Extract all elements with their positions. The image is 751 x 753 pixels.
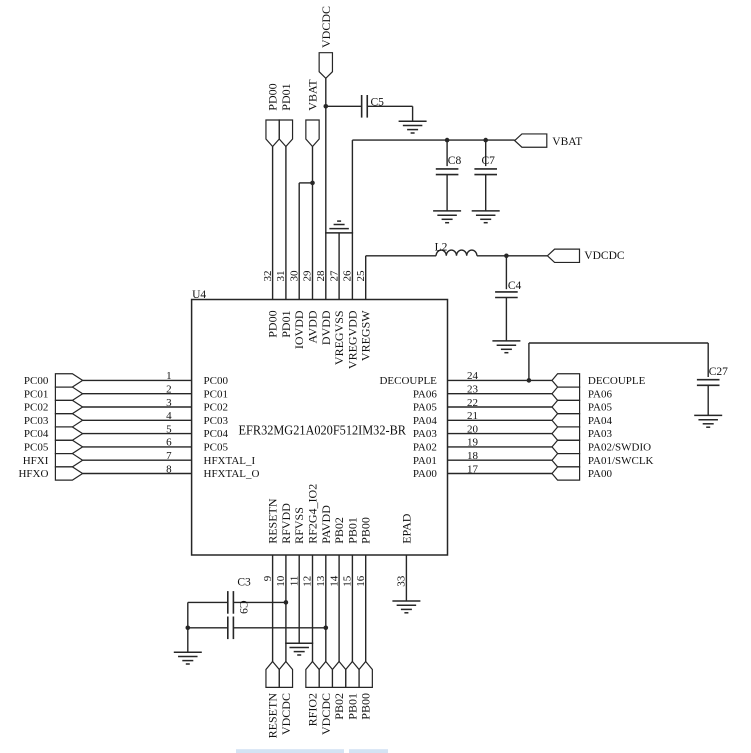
svg-text:16: 16 bbox=[355, 575, 367, 587]
svg-text:HFXTAL_I: HFXTAL_I bbox=[204, 455, 256, 467]
ground (VREGVSS, inverted) bbox=[325, 221, 353, 233]
svg-text:3: 3 bbox=[166, 397, 172, 409]
svg-text:VDCDC: VDCDC bbox=[584, 250, 625, 262]
wire pin 16 bottom bbox=[365, 555, 367, 662]
svg-text:DECOUPLE: DECOUPLE bbox=[588, 375, 646, 387]
svg-text:PA02: PA02 bbox=[413, 442, 437, 454]
svg-text:PC00: PC00 bbox=[204, 375, 229, 387]
svg-text:RFVSS: RFVSS bbox=[292, 507, 306, 544]
wire pin 3 left bbox=[83, 406, 192, 408]
ground (C7) bbox=[472, 211, 500, 223]
wire pin 7 left bbox=[83, 459, 192, 461]
wire pin 15 bottom bbox=[351, 555, 353, 662]
svg-text:PC03: PC03 bbox=[204, 415, 229, 427]
svg-text:EFR32MG21A020F512IM32-BR: EFR32MG21A020F512IM32-BR bbox=[239, 423, 407, 438]
junction VBAT/IOVDD/AVDD bbox=[310, 181, 315, 186]
svg-text:PA01: PA01 bbox=[413, 455, 437, 467]
wire pin 19 right bbox=[448, 446, 553, 448]
svg-text:DVDD: DVDD bbox=[319, 310, 333, 345]
svg-text:PB00: PB00 bbox=[359, 517, 373, 544]
ground (C27) bbox=[694, 415, 722, 427]
svg-text:VREGSW: VREGSW bbox=[359, 310, 373, 361]
svg-text:24: 24 bbox=[467, 370, 479, 382]
wire C27 bottom bbox=[707, 385, 709, 415]
wire pin 9 bottom bbox=[272, 555, 274, 662]
svg-text:2: 2 bbox=[166, 384, 172, 396]
wire pin 4 left bbox=[83, 419, 192, 421]
wire DECOUPLE right bbox=[529, 342, 708, 344]
port flag PA06 bbox=[552, 387, 580, 400]
svg-text:HFXI: HFXI bbox=[23, 455, 49, 467]
capacitor C27 bbox=[697, 380, 720, 386]
svg-text:C8: C8 bbox=[448, 155, 462, 167]
wire C5 to ground bbox=[367, 105, 412, 107]
port flag PA04 bbox=[552, 414, 580, 427]
wire pin 29 AVDD bbox=[312, 183, 314, 300]
svg-text:12: 12 bbox=[302, 576, 314, 587]
wire pin 8 left bbox=[83, 473, 192, 475]
svg-text:HFXTAL_O: HFXTAL_O bbox=[204, 468, 260, 480]
svg-text:20: 20 bbox=[467, 423, 479, 435]
wire PD00 to pin 32 bbox=[272, 147, 274, 300]
wire C8 top bbox=[446, 140, 448, 166]
port flag PB02 (bottom) bbox=[332, 662, 345, 688]
svg-text:PB00: PB00 bbox=[359, 693, 373, 720]
capacitor C8 bbox=[436, 169, 459, 175]
wire PD01 to pin 31 bbox=[285, 147, 287, 300]
junction C7 bbox=[483, 138, 488, 143]
svg-text:VBAT: VBAT bbox=[306, 79, 320, 111]
wire pin 24 right bbox=[448, 379, 553, 381]
wire C9 left bbox=[188, 627, 228, 629]
svg-text:IOVDD: IOVDD bbox=[292, 310, 306, 349]
svg-text:PC02: PC02 bbox=[204, 402, 228, 414]
svg-text:C3: C3 bbox=[237, 576, 251, 588]
wire gnd stem left bbox=[187, 602, 189, 652]
svg-text:RESETN: RESETN bbox=[266, 693, 280, 739]
highlight bar 1 bbox=[236, 749, 344, 753]
capacitor C9 bbox=[228, 617, 234, 640]
svg-text:PC05: PC05 bbox=[24, 442, 49, 454]
wire pin 5 left bbox=[83, 433, 192, 435]
svg-text:PC04: PC04 bbox=[204, 428, 229, 440]
svg-text:C7: C7 bbox=[482, 155, 496, 167]
svg-text:PB02: PB02 bbox=[332, 517, 346, 544]
svg-text:7: 7 bbox=[166, 450, 172, 462]
wire C7 top bbox=[485, 140, 487, 166]
svg-text:PD01: PD01 bbox=[279, 310, 293, 337]
svg-text:PAVDD: PAVDD bbox=[319, 505, 333, 544]
ground (RFVSS) bbox=[285, 643, 313, 655]
svg-text:PD01: PD01 bbox=[279, 83, 293, 110]
port flag PD00 (top) bbox=[266, 120, 279, 147]
capacitor C5 bbox=[362, 95, 368, 118]
capacitor C7 bbox=[474, 169, 497, 175]
svg-text:19: 19 bbox=[467, 437, 479, 449]
svg-text:DECOUPLE: DECOUPLE bbox=[379, 375, 437, 387]
svg-text:PD00: PD00 bbox=[266, 310, 280, 337]
port flag PB01 (bottom) bbox=[346, 662, 359, 688]
port flag PB00 (bottom) bbox=[359, 662, 372, 688]
wire C3 right to pin 10 bbox=[233, 601, 286, 603]
svg-text:PD00: PD00 bbox=[266, 83, 280, 110]
svg-text:18: 18 bbox=[467, 450, 479, 462]
highlight bar 2 bbox=[349, 749, 388, 753]
svg-text:PC03: PC03 bbox=[24, 415, 49, 427]
capacitor C3 bbox=[228, 591, 234, 614]
svg-text:PA02/SWDIO: PA02/SWDIO bbox=[588, 442, 651, 454]
svg-text:PA05: PA05 bbox=[413, 402, 438, 414]
svg-text:PC02: PC02 bbox=[24, 402, 48, 414]
svg-text:PC00: PC00 bbox=[24, 375, 49, 387]
svg-text:VREGVDD: VREGVDD bbox=[345, 310, 359, 369]
port flag VDCDC (right) bbox=[547, 249, 579, 262]
svg-text:RF2G4_IO2: RF2G4_IO2 bbox=[306, 484, 320, 544]
svg-text:22: 22 bbox=[467, 397, 478, 409]
svg-text:PA06: PA06 bbox=[588, 388, 613, 400]
svg-text:14: 14 bbox=[328, 575, 340, 587]
ground (C3/C9) bbox=[174, 652, 202, 664]
svg-text:U4: U4 bbox=[192, 289, 206, 301]
svg-text:PB01: PB01 bbox=[345, 693, 359, 720]
wire pin 33 EPAD bbox=[405, 555, 407, 601]
wire pin 11 RFVSS bbox=[298, 555, 300, 643]
svg-text:1: 1 bbox=[166, 370, 172, 382]
svg-text:PA05: PA05 bbox=[588, 402, 613, 414]
wire pin 12 bottom bbox=[312, 555, 314, 662]
wire pin 22 right bbox=[448, 406, 553, 408]
svg-text:RESETN: RESETN bbox=[266, 498, 280, 544]
svg-text:PB01: PB01 bbox=[345, 517, 359, 544]
wire VBAT down bbox=[312, 147, 314, 183]
wire DECOUPLE down to C27 bbox=[707, 343, 709, 377]
svg-text:PC01: PC01 bbox=[24, 388, 48, 400]
svg-text:PA06: PA06 bbox=[413, 388, 438, 400]
port flag PD01 (top) bbox=[279, 120, 292, 147]
port flag PC04 bbox=[55, 427, 82, 440]
junction C8 bbox=[445, 138, 450, 143]
junction C4 bbox=[504, 254, 509, 259]
port flag HFXI bbox=[55, 454, 82, 467]
wire jog to IOVDD bbox=[299, 182, 312, 184]
svg-text:21: 21 bbox=[467, 410, 478, 422]
port flag DECOUPLE bbox=[552, 374, 580, 387]
wire C7 bottom bbox=[485, 175, 487, 211]
port flag PA01/SWCLK bbox=[552, 454, 580, 467]
ground (C8) bbox=[433, 211, 461, 223]
port flag PC00 bbox=[55, 374, 82, 387]
port flag VDCDC (bottom b) bbox=[319, 662, 332, 688]
wire C4 bottom bbox=[505, 298, 507, 341]
ground (EPAD) bbox=[392, 601, 420, 613]
port flag VDCDC (bottom a) bbox=[279, 662, 292, 688]
wire C8 bottom bbox=[446, 175, 448, 211]
wire pin 10 bottom bbox=[285, 555, 287, 662]
wire pin 21 right bbox=[448, 419, 553, 421]
svg-text:PA03: PA03 bbox=[588, 428, 613, 440]
svg-text:VDCDC: VDCDC bbox=[279, 693, 293, 735]
svg-text:HFXO: HFXO bbox=[18, 468, 48, 480]
wire pin 18 right bbox=[448, 459, 553, 461]
port flag PA05 bbox=[552, 400, 580, 413]
wire L2 to VDCDC flag bbox=[477, 255, 548, 257]
svg-text:9: 9 bbox=[262, 575, 274, 581]
svg-text:PC01: PC01 bbox=[204, 388, 228, 400]
inductor L2 bbox=[436, 250, 477, 256]
svg-text:RFVDD: RFVDD bbox=[279, 503, 293, 544]
wire C9 right to pin 13 bbox=[233, 627, 325, 629]
junction C3/RFVDD bbox=[284, 600, 289, 605]
svg-text:AVDD: AVDD bbox=[306, 310, 320, 343]
junction DECOUPLE tap bbox=[527, 378, 532, 383]
junction C5 tap bbox=[324, 104, 329, 109]
port flag PA00 bbox=[552, 467, 580, 480]
wire pin 25 VREGSW bbox=[365, 256, 367, 300]
svg-text:PA00: PA00 bbox=[588, 468, 613, 480]
capacitor C4 bbox=[495, 292, 518, 298]
svg-text:EPAD: EPAD bbox=[399, 513, 413, 544]
wire pin 28 DVDD bbox=[325, 78, 327, 299]
port flag RESETN (bottom) bbox=[266, 662, 279, 688]
wire DECOUPLE up bbox=[528, 343, 530, 380]
wire pin 20 right bbox=[448, 433, 553, 435]
svg-text:PC04: PC04 bbox=[24, 428, 49, 440]
svg-text:C27: C27 bbox=[709, 366, 728, 378]
junction C3/C9 gnd bbox=[186, 626, 191, 631]
svg-text:PA00: PA00 bbox=[413, 468, 438, 480]
svg-text:10: 10 bbox=[275, 575, 287, 587]
port flag HFXO bbox=[55, 467, 82, 480]
svg-text:5: 5 bbox=[166, 423, 172, 435]
wire C3 left bbox=[188, 601, 228, 603]
wire pin 13 bottom bbox=[325, 555, 327, 662]
wire pin 26 VREGVDD bbox=[351, 140, 353, 299]
port flag PC03 bbox=[55, 414, 82, 427]
IC U4 EFR32MG21A020F512IM32-BR body bbox=[192, 300, 448, 556]
ground (C4) bbox=[492, 341, 520, 353]
svg-text:23: 23 bbox=[467, 384, 479, 396]
port flag PC05 bbox=[55, 440, 82, 453]
svg-text:15: 15 bbox=[342, 575, 354, 587]
wire pin 2 left bbox=[83, 393, 192, 395]
svg-text:PB02: PB02 bbox=[332, 693, 346, 720]
svg-text:VDCDC: VDCDC bbox=[319, 693, 333, 735]
wire pin 14 bottom bbox=[338, 555, 340, 662]
port flag PC02 bbox=[55, 400, 82, 413]
svg-text:4: 4 bbox=[166, 410, 172, 422]
wire to L2 bbox=[366, 255, 436, 257]
svg-text:6: 6 bbox=[166, 437, 172, 449]
wire to C5 bbox=[326, 105, 362, 107]
svg-text:VBAT: VBAT bbox=[552, 136, 582, 148]
wire pin 27 VREGVSS bbox=[338, 233, 340, 300]
svg-text:8: 8 bbox=[166, 463, 172, 475]
wire VBAT rail bbox=[352, 139, 514, 141]
port flag VDCDC (top) bbox=[319, 53, 332, 79]
wire pin 6 left bbox=[83, 446, 192, 448]
svg-text:C9: C9 bbox=[237, 600, 249, 614]
ground (C5) bbox=[399, 121, 427, 133]
port flag PA03 bbox=[552, 427, 580, 440]
svg-text:PA04: PA04 bbox=[588, 415, 613, 427]
wire pin 30 IOVDD bbox=[298, 183, 300, 300]
svg-text:PA04: PA04 bbox=[413, 415, 438, 427]
svg-text:L2: L2 bbox=[435, 242, 448, 254]
svg-text:VREGVSS: VREGVSS bbox=[332, 310, 346, 365]
port flag RFIO2 (bottom) bbox=[306, 662, 319, 688]
svg-text:PC05: PC05 bbox=[204, 442, 229, 454]
svg-text:13: 13 bbox=[315, 575, 327, 587]
port flag PA02/SWDIO bbox=[552, 440, 580, 453]
port flag VBAT (right) bbox=[515, 134, 547, 147]
wire C4 top bbox=[505, 256, 507, 289]
svg-text:17: 17 bbox=[467, 463, 479, 475]
svg-text:PA03: PA03 bbox=[413, 428, 438, 440]
port flag VBAT (top) bbox=[306, 120, 319, 147]
wire pin 17 right bbox=[448, 473, 553, 475]
svg-text:RFIO2: RFIO2 bbox=[306, 693, 320, 726]
svg-text:VDCDC: VDCDC bbox=[319, 6, 333, 48]
port flag PC01 bbox=[55, 387, 82, 400]
wire pin 1 left bbox=[83, 379, 192, 381]
junction C9/PAVDD bbox=[324, 626, 329, 631]
svg-text:C4: C4 bbox=[508, 280, 522, 292]
svg-text:PA01/SWCLK: PA01/SWCLK bbox=[588, 455, 654, 467]
wire pin 23 right bbox=[448, 393, 553, 395]
